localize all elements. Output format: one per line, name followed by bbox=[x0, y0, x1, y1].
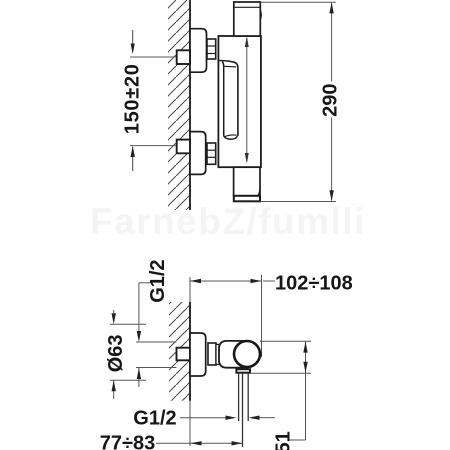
lower inlet centerline bbox=[130, 145, 177, 147]
svg-text:290: 290 bbox=[320, 84, 342, 117]
faucet body (side view) bbox=[218, 36, 261, 167]
wall section (side view, hatched) bbox=[168, 0, 190, 210]
upper escutcheon (side view) bbox=[190, 29, 207, 72]
dimension 150±20 bbox=[121, 30, 143, 171]
dimension 290 bbox=[260, 2, 341, 201]
svg-text:77÷83: 77÷83 bbox=[100, 433, 155, 450]
control knob (circle) bbox=[234, 341, 261, 367]
wall face line (side view) bbox=[189, 0, 191, 210]
pipe stub in wall (plan view) bbox=[177, 348, 191, 361]
G1/2 upper label and leader bbox=[136, 259, 177, 387]
upper hex nut bbox=[207, 39, 216, 59]
wall section (front/plan view, hatched) bbox=[169, 302, 190, 401]
wall face line with extensions (plan view) bbox=[189, 277, 191, 446]
internal vertical dimension line in body bbox=[245, 37, 249, 164]
svg-text:Ø63: Ø63 bbox=[105, 334, 127, 372]
escutcheon (plan view) bbox=[190, 333, 206, 376]
svg-text:51: 51 bbox=[273, 431, 295, 450]
upper pipe stub in wall bbox=[177, 50, 190, 64]
dimension 51 bbox=[250, 341, 311, 450]
svg-text:G1/2: G1/2 bbox=[147, 259, 169, 302]
svg-text:FarnebZ/fumlli: FarnebZ/fumlli bbox=[90, 201, 366, 242]
outlet horn profile on body bbox=[219, 61, 238, 140]
dimension 77÷83 bbox=[100, 433, 243, 450]
body lower section bbox=[234, 167, 261, 196]
svg-text:102÷108: 102÷108 bbox=[275, 272, 353, 294]
lower escutcheon (side view) bbox=[190, 132, 206, 175]
Ø63 dimension bbox=[105, 310, 146, 399]
faucet body (plan view) bbox=[219, 341, 247, 368]
lower pipe stub in wall bbox=[177, 140, 190, 154]
hose connection nut at bottom bbox=[234, 196, 260, 202]
hex nut (plan view) bbox=[208, 343, 219, 365]
cartridge cap (top of body) bbox=[234, 2, 261, 36]
shower hose bbox=[239, 373, 249, 447]
upper inlet centerline bbox=[130, 56, 177, 58]
G1/2 lower label and dimension bbox=[133, 407, 275, 429]
svg-text:G1/2: G1/2 bbox=[133, 407, 176, 429]
hose nut below body bbox=[236, 369, 250, 373]
dimension 102÷108 bbox=[190, 272, 353, 357]
lower hex nut bbox=[207, 143, 216, 164]
svg-text:150±20: 150±20 bbox=[121, 63, 143, 134]
